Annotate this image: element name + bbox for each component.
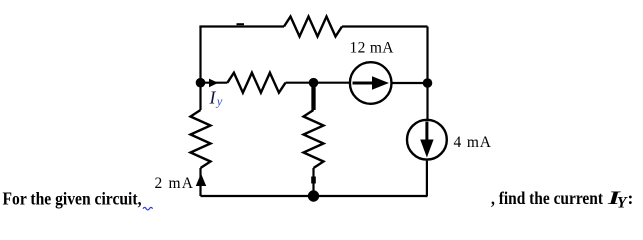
svg-text:For the given circuit,: For the given circuit, — [3, 188, 142, 208]
wire: resistor R2 to node B — [286, 82, 314, 84]
wire: right side upper (top-right corner down to node C) — [426, 27, 428, 84]
wire: node B down to resistor R3 (thick stub) — [311, 83, 315, 110]
svg-text:12 mA: 12 mA — [350, 40, 395, 57]
svg-text:2 mA: 2 mA — [155, 175, 194, 192]
svg-text:y: y — [215, 95, 223, 109]
wire: resistor R3 down to node D — [312, 168, 314, 196]
svg-text:, find the current: , find the current — [491, 188, 603, 208]
resistor R4 (left branch, vertical) — [191, 110, 211, 168]
node D (bottom junction) — [308, 190, 319, 201]
current source I1 (12 mA), circle — [350, 62, 392, 104]
wire: node A to resistor R2 — [201, 82, 228, 84]
svg-text:4 mA: 4 mA — [454, 134, 492, 151]
squiggle under comma (blue) — [143, 207, 153, 210]
wire: left side upper (top-left corner down to node A) — [199, 27, 201, 83]
arrow inside I2 (points down) — [425, 122, 428, 145]
node B (middle junction) — [309, 78, 319, 88]
arrow inside I1 (points right) — [353, 82, 375, 85]
wire: current source I2 down to bottom-right corner — [426, 161, 429, 196]
wire: bottom side — [201, 195, 428, 197]
resistor R1 (top) — [284, 17, 342, 37]
wire: resistor R4 down to bottom-left corner — [199, 168, 201, 196]
wire: node B to current source I1 — [314, 82, 350, 84]
resistor R2 (middle branch, horizontal) — [227, 73, 285, 93]
wire: current source I1 to node C — [392, 82, 428, 84]
node A (left junction) — [196, 78, 206, 88]
current source I2 (4 mA), circle — [407, 120, 447, 160]
svg-text:I: I — [209, 87, 217, 107]
thick mark on wire (resistor R3 lead) — [311, 177, 316, 184]
tick mark on top wire — [237, 23, 245, 25]
wire: top side right (resistor R1 to top-right corner) — [342, 25, 428, 27]
arrowhead: current I_y (right) — [209, 79, 218, 88]
node C (right junction) — [423, 78, 433, 88]
svg-text:Y: Y — [617, 194, 628, 211]
svg-text::: : — [628, 188, 634, 208]
wire: node A down to resistor R4 — [199, 83, 201, 110]
resistor R3 (middle branch, vertical) — [304, 110, 324, 168]
wire: top side left (top-left corner to resistor R1) — [201, 27, 285, 28]
arrowhead: 2 mA current direction (up) — [196, 174, 206, 187]
wire: node C down to current source I2 — [426, 83, 428, 119]
